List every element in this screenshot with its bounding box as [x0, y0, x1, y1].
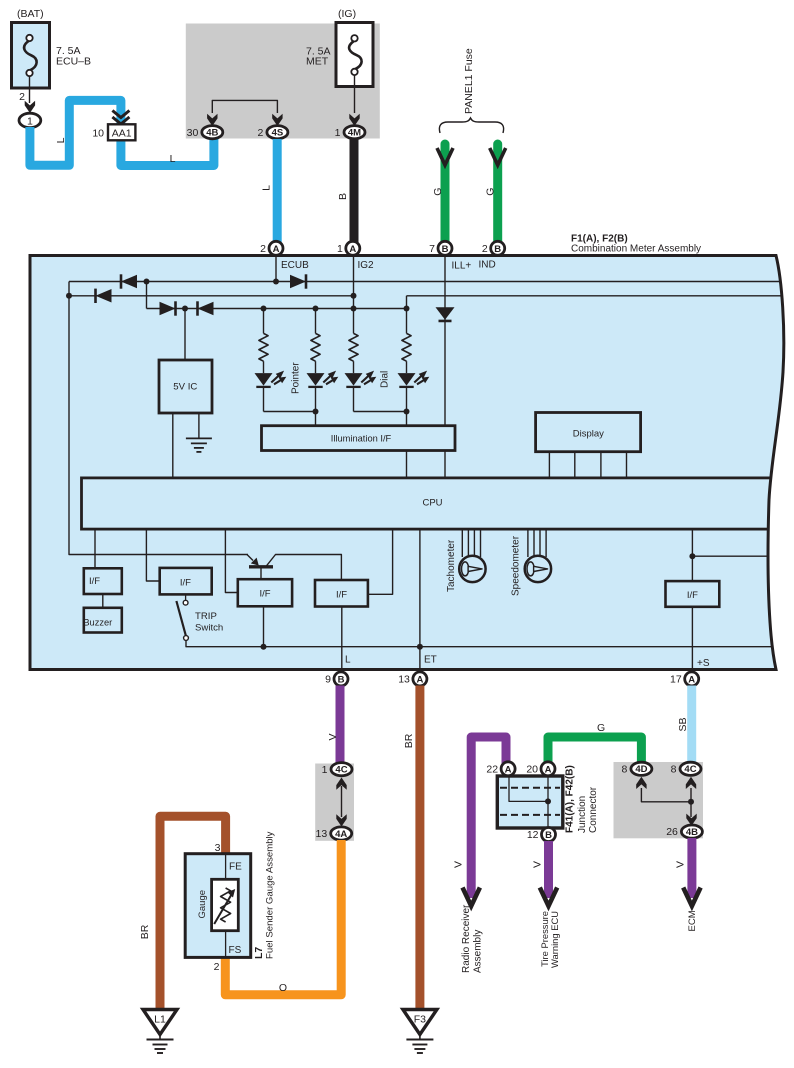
bus row 3 [147, 308, 407, 310]
bus row 2 [69, 295, 354, 297]
svg-text:BR: BR [403, 733, 415, 748]
connector oval 1 4M [344, 126, 365, 139]
riser row2-row3 at x406 [406, 296, 408, 309]
svg-text:3: 3 [215, 842, 221, 854]
diode row3 a [160, 302, 176, 316]
I/F box 2 [160, 568, 212, 595]
junction node ET rail [417, 644, 423, 650]
meter top pin 2B [491, 241, 505, 255]
I/F box 5 [666, 581, 720, 607]
I/F-4 to pin 9B (L) [341, 607, 343, 669]
svg-text:Illumination I/F: Illumination I/F [331, 433, 392, 443]
svg-text:FE: FE [229, 862, 242, 873]
svg-text:1: 1 [27, 115, 33, 127]
combination meter assembly block [30, 256, 784, 670]
illumination LED branch 3: LED [345, 373, 363, 386]
svg-text:7: 7 [429, 243, 435, 255]
junction node LED1-row3 [261, 306, 267, 312]
svg-text:ECUB: ECUB [281, 260, 309, 271]
junction connector AA1 [108, 124, 135, 140]
ground F3 [403, 1010, 437, 1035]
diode row1 b (ECUB) [290, 275, 306, 289]
connector oval 1 [19, 113, 41, 127]
svg-text:4B: 4B [206, 128, 218, 139]
svg-text:I/F: I/F [180, 578, 191, 589]
svg-text:A: A [505, 764, 512, 775]
svg-text:Radio Receiver: Radio Receiver [461, 904, 472, 973]
meter bottom pin 17A [685, 672, 699, 686]
svg-text:4M: 4M [348, 128, 361, 139]
svg-text:2: 2 [260, 243, 266, 255]
svg-text:I/F: I/F [89, 576, 100, 587]
connector oval 1 4C [331, 763, 352, 776]
svg-text:L: L [261, 185, 273, 191]
svg-text:A: A [273, 244, 280, 255]
wire L (blue) 4S to meter pin 2A [273, 139, 282, 242]
svg-text:V: V [327, 733, 339, 740]
Display box [536, 413, 641, 452]
svg-text:A: A [688, 675, 695, 686]
illumination LED branch 4: resistor [406, 309, 408, 334]
connector oval 8 4D [631, 762, 652, 775]
svg-text:2: 2 [214, 961, 220, 973]
svg-text:2: 2 [19, 91, 25, 103]
svg-text:2: 2 [482, 243, 488, 255]
wire V (violet) 9B to 4C [336, 686, 345, 765]
CPU to I/F-3 line [225, 529, 237, 593]
internal line FE-FS [225, 855, 227, 879]
meter bottom pin 13A [413, 672, 427, 686]
svg-text:(BAT): (BAT) [17, 8, 44, 20]
junction node I/F-3 rail [261, 644, 267, 650]
svg-text:4C: 4C [684, 764, 696, 775]
svg-text:L: L [170, 153, 176, 165]
Display pins to CPU [548, 452, 550, 478]
double chevron into AA1 [112, 111, 129, 118]
junction node IG2-row2 [351, 293, 357, 299]
svg-text:MET: MET [306, 56, 329, 68]
variable resistor symbol [221, 888, 231, 922]
switch common rail [186, 640, 790, 647]
svg-text:4S: 4S [272, 128, 284, 139]
svg-text:Speedometer: Speedometer [511, 535, 522, 596]
svg-text:4B: 4B [686, 827, 698, 838]
svg-text:IND: IND [479, 260, 496, 271]
wire from IG fuse to 4M [354, 75, 356, 113]
svg-text:G: G [597, 722, 605, 734]
junction node ECUB-row1 [273, 279, 279, 285]
ET line CPU to pin 13A [419, 529, 421, 668]
diode row1 a [121, 275, 137, 289]
5V IC box [159, 360, 212, 413]
svg-text:B: B [442, 244, 449, 255]
illumination LED branch 2: LED [307, 373, 325, 386]
diode ILL+ vertical [436, 307, 455, 320]
illumination LED branch 4: LED [398, 373, 416, 386]
connector oval 13 4A [331, 827, 352, 840]
transistor Q1 [249, 565, 273, 568]
svg-text:I/F: I/F [259, 589, 270, 600]
LED col1 to col2 join [264, 412, 316, 428]
svg-text:10: 10 [92, 128, 104, 140]
transistor collector line to I/F-4 [267, 555, 342, 582]
meter bottom pin 9B [334, 672, 348, 686]
Buzzer box [84, 608, 122, 633]
svg-text:ECM: ECM [687, 910, 698, 931]
svg-text:Switch: Switch [195, 623, 223, 634]
illumination LED branch 1: LED [255, 373, 273, 386]
wire V (violet) 4B to ECM [687, 838, 696, 898]
junction connector F41/F42 box [497, 776, 563, 828]
illumination LED branch 3: resistor [353, 309, 355, 334]
fuel sender gauge assembly box [185, 854, 251, 958]
svg-text:9: 9 [325, 674, 331, 686]
internal wire 4C-4A with arrows [336, 778, 346, 790]
svg-text:4D: 4D [635, 764, 647, 775]
CPU to I/F-1 line [94, 529, 96, 568]
wire G (green) to ILL+ pin 7B [441, 144, 450, 242]
wire IG2 from pin 1A down [353, 255, 355, 310]
svg-text:22: 22 [486, 763, 498, 775]
gray connector box 4C/4A [315, 764, 354, 841]
I/F-1 to Buzzer line [102, 594, 104, 608]
wire B (black) 4M to meter pin 1A [350, 139, 359, 242]
5V IC ground pin [198, 413, 200, 438]
svg-text:V: V [532, 861, 544, 868]
connector oval 8 4C [680, 762, 701, 775]
svg-text:L7: L7 [253, 947, 265, 959]
wire BR (brown) fuel sender pin 3 to ground L1 [160, 816, 226, 1010]
I/F-5 to pin 17A (+S) [691, 607, 693, 668]
junction node I/F-5 branch [689, 553, 695, 559]
svg-text:B: B [337, 193, 349, 200]
svg-text:Junction: Junction [577, 796, 588, 833]
svg-text:ECU–B: ECU–B [56, 55, 91, 67]
junction pin 20A [541, 762, 555, 776]
svg-text:V: V [453, 861, 465, 868]
svg-text:F3: F3 [414, 1014, 426, 1026]
svg-text:(IG): (IG) [338, 8, 356, 20]
speedometer legs [527, 529, 529, 557]
connector oval 2 4S [267, 126, 288, 139]
wire ILL+ from pin 7B down [444, 255, 446, 427]
5V IC pin to CPU [172, 413, 174, 478]
svg-text:PANEL1 Fuse: PANEL1 Fuse [463, 48, 475, 114]
svg-text:Dial: Dial [380, 371, 391, 388]
svg-text:5V IC: 5V IC [173, 382, 197, 393]
5V IC feed line [184, 309, 186, 361]
svg-text:Buzzer: Buzzer [83, 617, 112, 627]
svg-text:A: A [349, 244, 356, 255]
svg-text:8: 8 [622, 763, 628, 775]
speedometer [525, 556, 551, 582]
svg-text:A: A [416, 675, 423, 686]
svg-text:26: 26 [666, 826, 678, 838]
svg-text:2: 2 [258, 127, 264, 139]
tachometer legs [461, 529, 463, 557]
svg-text:A: A [545, 764, 552, 775]
wire SB (light blue) 17A to 4C [687, 686, 696, 764]
internal wires 4C to 4D and 4B [690, 788, 692, 817]
svg-text:Tachometer: Tachometer [446, 539, 457, 592]
svg-text:8: 8 [671, 763, 677, 775]
svg-text:TRIP: TRIP [195, 611, 217, 622]
svg-text:L1: L1 [154, 1014, 166, 1026]
svg-text:ET: ET [424, 655, 437, 666]
svg-text:B: B [545, 830, 552, 841]
bus row 2 right segment [407, 295, 791, 297]
svg-text:12: 12 [527, 829, 539, 841]
wire G (green) junction 20A to 4D [548, 737, 641, 765]
junction node LED2-row3 [313, 306, 319, 312]
I/F-5 line from CPU with branch to right [691, 529, 693, 581]
svg-text:17: 17 [670, 674, 682, 686]
ground under 5V IC [186, 437, 212, 439]
block border [30, 256, 784, 670]
svg-text:I/F: I/F [336, 590, 347, 601]
Illumination I/F pins to CPU [406, 451, 408, 479]
junction node row2-left [66, 293, 72, 299]
PANEL1 Fuse brace [439, 118, 503, 133]
svg-text:BR: BR [139, 924, 151, 939]
junction internal wires [547, 776, 549, 828]
svg-text:Connector: Connector [588, 786, 599, 833]
svg-text:B: B [494, 244, 501, 255]
junction pin 12B [542, 828, 556, 842]
LED col3 to col4 join [354, 412, 407, 428]
I/F-3 to rail [263, 606, 265, 646]
ground L1 [143, 1010, 177, 1035]
svg-text:FS: FS [229, 945, 242, 956]
junction node 5VIC-row3 [182, 306, 188, 312]
svg-text:F41(A), F42(B): F41(A), F42(B) [565, 765, 576, 833]
svg-text:Combination Meter Assembly: Combination Meter Assembly [571, 244, 701, 255]
wire O (orange) 4A to fuel sender pin 2 [225, 840, 341, 995]
riser row1-row3 at x146 [146, 282, 148, 309]
svg-text:IG2: IG2 [358, 260, 375, 271]
wire BR (brown) 13A to ground F3 [415, 686, 424, 1011]
Illumination I/F box [262, 426, 456, 451]
svg-text:I/F: I/F [687, 590, 698, 601]
wire from BAT fuse pin 2 [29, 76, 31, 103]
meter top pin 7B [438, 241, 452, 255]
svg-text:4A: 4A [335, 829, 347, 840]
bus row 1 with diodes [69, 281, 790, 283]
jumper loop 4B to 4S [212, 100, 277, 113]
I/F box 3 [238, 579, 292, 606]
junction pin 22A [501, 762, 515, 776]
illumination LED branch 1: resistor [263, 309, 265, 334]
junction node LED4-row3 [404, 306, 410, 312]
diode row2 [96, 289, 112, 303]
svg-text:AA1: AA1 [112, 128, 132, 140]
svg-text:1: 1 [322, 764, 328, 776]
svg-text:G: G [432, 188, 444, 196]
svg-text:O: O [279, 982, 287, 994]
wire ECUB from pin 2A down [275, 255, 277, 282]
CPU to I/F-2 line [146, 529, 159, 581]
svg-text:Gauge: Gauge [197, 890, 208, 919]
TRIP switch [185, 594, 187, 600]
I/F box 1 [84, 568, 122, 594]
wire V (violet) junction 22A to radio receiver [471, 737, 506, 898]
svg-text:ILL+: ILL+ [452, 261, 472, 272]
connector oval 26 4B [681, 825, 702, 838]
svg-text:Assembly: Assembly [473, 930, 484, 973]
diode row3 b [198, 302, 214, 316]
svg-text:Display: Display [573, 429, 604, 440]
svg-text:V: V [675, 861, 687, 868]
svg-text:SB: SB [677, 717, 689, 731]
svg-text:1: 1 [337, 243, 343, 255]
svg-text:Pointer: Pointer [291, 362, 302, 394]
CPU box [82, 478, 782, 529]
svg-text:G: G [485, 188, 497, 196]
svg-text:CPU: CPU [422, 498, 442, 509]
svg-text:30: 30 [187, 127, 199, 139]
illumination LED branch 2: resistor [315, 309, 317, 334]
svg-text:1: 1 [335, 127, 341, 139]
junction node LED3-row3 [351, 306, 357, 312]
svg-text:L: L [55, 137, 67, 143]
svg-text:Fuel Sender Gauge Assembly: Fuel Sender Gauge Assembly [265, 831, 276, 959]
meter top pin 1A [346, 241, 360, 255]
svg-text:4C: 4C [335, 765, 347, 776]
tachometer [459, 556, 485, 582]
gauge variable resistor box [212, 879, 239, 930]
svg-text:13: 13 [316, 828, 328, 840]
svg-text:+S: +S [697, 658, 710, 669]
wire L (blue) from oval 1 to AA1 to 4B [30, 100, 214, 165]
svg-text:20: 20 [526, 763, 538, 775]
connector oval 30 4B [202, 126, 223, 139]
I/F box 4 [315, 580, 368, 607]
svg-text:Warning ECU: Warning ECU [549, 911, 560, 968]
svg-text:B: B [338, 675, 345, 686]
wire V (violet) 12B to tire pressure ECU [544, 841, 553, 898]
meter top pin 2A [269, 241, 283, 255]
gray relay-block box (top) [186, 24, 380, 139]
junction node row1-riser [144, 279, 150, 285]
gray connector box 4D/4C/4B [614, 762, 704, 838]
left vertical from row1 [69, 282, 248, 555]
svg-text:13: 13 [398, 674, 410, 686]
I/F-4 right side to CPU [368, 529, 393, 594]
wire G (green) to IND pin 2B [493, 144, 502, 242]
svg-text:L: L [345, 655, 351, 666]
